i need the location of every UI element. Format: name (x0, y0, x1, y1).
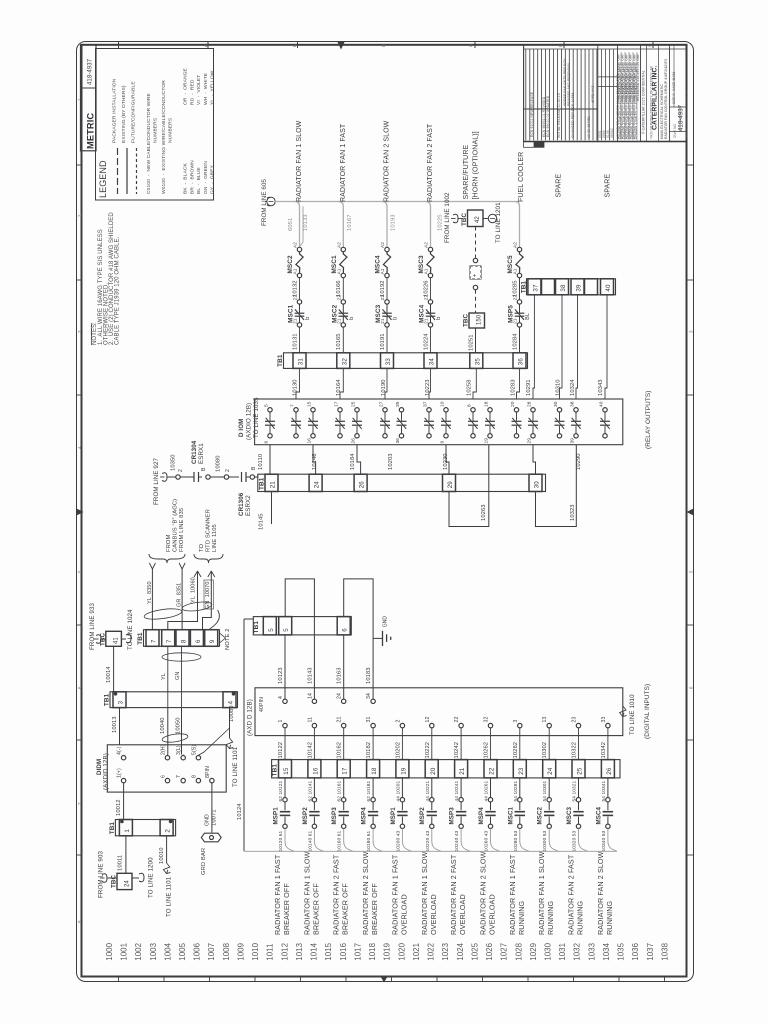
svg-text:A2: A2 (513, 242, 519, 248)
svg-text:40: 40 (599, 401, 605, 407)
svg-text:10302: 10302 (542, 742, 548, 759)
svg-text:26: 26 (359, 481, 366, 489)
svg-text:29: 29 (447, 481, 454, 489)
svg-text:1002: 1002 (134, 943, 143, 961)
svg-text:SCALE NONE SHEET 10 OF 14: SCALE NONE SHEET 10 OF 14 (684, 91, 688, 138)
svg-text:1: 1 (124, 829, 131, 833)
svg-text:10140 61: 10140 61 (307, 830, 313, 851)
svg-text:1036: 1036 (631, 942, 640, 960)
svg-text:7: 7 (151, 639, 158, 643)
svg-text:62 10181: 62 10181 (366, 780, 372, 801)
svg-text:14: 14 (307, 693, 313, 699)
svg-text:1037: 1037 (646, 943, 655, 961)
svg-text:BREAKER OFF: BREAKER OFF (282, 883, 291, 935)
svg-text:10225: 10225 (438, 214, 444, 231)
svg-text:10260 43: 10260 43 (484, 830, 490, 851)
svg-text:OVERLOAD: OVERLOAD (488, 894, 497, 935)
svg-text:10290: 10290 (576, 453, 582, 470)
svg-text:6: 6 (161, 775, 167, 778)
svg-text:10240 43: 10240 43 (454, 830, 460, 851)
svg-text:MSC2: MSC2 (287, 255, 294, 274)
svg-text:RADIATOR FAN 2 SLOW: RADIATOR FAN 2 SLOW (479, 851, 488, 935)
svg-text:23: 23 (572, 717, 578, 723)
svg-text:TO LINE 1035: TO LINE 1035 (253, 397, 260, 438)
svg-text:B: B (201, 467, 207, 471)
svg-text:10343: 10343 (598, 379, 604, 396)
svg-text:10263: 10263 (481, 504, 487, 521)
svg-text:1029: 1029 (529, 942, 538, 960)
svg-text:30: 30 (553, 401, 559, 407)
svg-text:MSC4: MSC4 (419, 304, 426, 323)
svg-text:RADIATOR FAN 2 FAST: RADIATOR FAN 2 FAST (449, 854, 458, 935)
svg-text:10220 43: 10220 43 (425, 830, 431, 851)
svg-text:1020: 1020 (397, 942, 406, 960)
svg-text:NOTE 2: NOTE 2 (225, 628, 231, 650)
svg-text:MSP2: MSP2 (419, 807, 426, 825)
svg-text:10322: 10322 (572, 742, 578, 759)
svg-text:10280 53: 10280 53 (513, 830, 519, 851)
svg-text:MSC1: MSC1 (331, 255, 338, 274)
svg-text:10132: 10132 (292, 280, 298, 297)
svg-text:37: 37 (532, 284, 539, 292)
svg-text:RADIATOR FAN 1 FAST: RADIATOR FAN 1 FAST (508, 854, 517, 935)
svg-text:TB1: TB1 (277, 354, 284, 367)
svg-text:10163: 10163 (337, 667, 343, 684)
svg-text:OVERLOAD: OVERLOAD (458, 894, 467, 935)
svg-text:54 10321: 54 10321 (572, 780, 578, 801)
svg-text:RADIATOR FAN 2 SLOW: RADIATOR FAN 2 SLOW (384, 120, 391, 202)
svg-text:MSC3: MSC3 (375, 304, 382, 323)
svg-text:TO LINE 1200: TO LINE 1200 (148, 857, 155, 898)
svg-text:RADIATOR FAN 1 FAST: RADIATOR FAN 1 FAST (340, 123, 347, 202)
svg-text:THIS DRAWING PROPERTY OF CATER: THIS DRAWING PROPERTY OF CATERPILLAR (650, 65, 654, 139)
svg-text:54 10341: 54 10341 (601, 780, 607, 801)
svg-text:FROM LINE 835: FROM LINE 835 (179, 508, 185, 552)
svg-text:10283: 10283 (510, 379, 516, 396)
svg-text:10014: 10014 (106, 666, 112, 683)
svg-text:SPARE: SPARE (605, 174, 612, 198)
svg-text:1021: 1021 (412, 943, 421, 961)
svg-text:10182: 10182 (366, 742, 372, 759)
svg-text:TBC: TBC (111, 875, 118, 888)
svg-text:40: 40 (605, 284, 612, 292)
svg-text:BREAKER OFF: BREAKER OFF (311, 883, 320, 935)
svg-text:MSP2: MSP2 (302, 807, 309, 825)
svg-text:TB1: TB1 (272, 764, 279, 777)
svg-text:7: 7 (176, 775, 182, 778)
svg-text:8: 8 (77, 920, 82, 923)
svg-text:BR - BROWN: BR - BROWN (189, 160, 195, 194)
svg-text:22: 22 (454, 717, 460, 723)
svg-text:CANBUS “B” (AGC): CANBUS “B” (AGC) (173, 499, 179, 552)
svg-text:MSP5: MSP5 (508, 305, 515, 323)
svg-text:7: 7 (166, 639, 173, 643)
svg-text:W0100 - EXISTING WIRE/CABLE/: W0100 - EXISTING WIRE/CABLE/CONDUCTOR (161, 80, 167, 194)
svg-text:44 10201: 44 10201 (395, 780, 401, 801)
svg-text:40PIN: 40PIN (259, 697, 265, 712)
svg-text:YL 8350: YL 8350 (147, 581, 153, 604)
svg-text:34: 34 (429, 358, 436, 366)
svg-text:1005: 1005 (178, 942, 187, 960)
svg-text:YL 10060: YL 10060 (191, 577, 197, 603)
svg-text:RADIATOR FAN 1 FAST: RADIATOR FAN 1 FAST (273, 854, 282, 935)
svg-text:FUEL COOLER: FUEL COOLER (518, 152, 525, 202)
svg-text:62 10121: 62 10121 (278, 780, 284, 801)
svg-text:1011: 1011 (266, 943, 275, 960)
svg-text:CHANGED PER ECN 10456: CHANGED PER ECN 10456 (571, 93, 575, 138)
svg-text:BREAKER OFF: BREAKER OFF (370, 883, 379, 935)
svg-text:10258: 10258 (467, 379, 473, 396)
svg-text:CR1306: CR1306 (238, 492, 245, 516)
svg-text:3: 3 (513, 720, 519, 723)
svg-text:1017: 1017 (353, 943, 362, 961)
svg-text:TB1: TB1 (109, 822, 116, 835)
svg-text:10122: 10122 (278, 742, 284, 759)
svg-text:METRIC: METRIC (86, 113, 96, 149)
svg-text:b: b (349, 317, 355, 320)
svg-text:19: 19 (484, 438, 490, 444)
svg-text:MSP3: MSP3 (449, 807, 456, 825)
svg-text:3: 3 (118, 700, 125, 704)
svg-text:32: 32 (484, 717, 490, 723)
svg-text:31: 31 (366, 717, 372, 723)
svg-text:21: 21 (337, 717, 343, 723)
svg-text:10300 53: 10300 53 (542, 830, 548, 851)
svg-text:GRD BAR: GRD BAR (201, 848, 207, 875)
svg-text:RUNNING: RUNNING (546, 900, 555, 935)
svg-text:OVERLOAD: OVERLOAD (399, 894, 408, 935)
svg-text:1018: 1018 (368, 942, 377, 960)
svg-text:5: 5 (268, 628, 275, 632)
svg-text:RADIATOR FAN 1 SLOW: RADIATOR FAN 1 SLOW (420, 851, 429, 935)
svg-text:10050: 10050 (176, 717, 182, 734)
svg-text:A2: A2 (336, 242, 342, 248)
svg-text:10183: 10183 (366, 667, 372, 684)
svg-text:GR 8351: GR 8351 (177, 583, 183, 607)
svg-text:5: 5 (688, 570, 693, 573)
svg-text:1016: 1016 (339, 942, 348, 960)
svg-text:23: 23 (518, 767, 525, 775)
svg-text:10192: 10192 (380, 280, 386, 297)
svg-text:5: 5 (264, 404, 270, 407)
svg-text:10226: 10226 (423, 280, 429, 297)
svg-text:5: 5 (283, 628, 290, 632)
svg-text:10123: 10123 (278, 667, 284, 684)
svg-text:RADIATOR FAN CONTROL GROUP 416: RADIATOR FAN CONTROL GROUP 416F2/420F2 (664, 59, 668, 139)
svg-text:10143: 10143 (307, 667, 313, 684)
svg-text:10080: 10080 (229, 705, 235, 722)
svg-text:10133: 10133 (303, 214, 309, 231)
svg-text:10160 61: 10160 61 (337, 830, 343, 851)
svg-text:22: 22 (380, 295, 386, 301)
svg-text:1034: 1034 (602, 942, 611, 960)
svg-text:MSP1: MSP1 (390, 807, 397, 825)
svg-text:RADIATOR FAN 2 FAST: RADIATOR FAN 2 FAST (332, 854, 341, 935)
svg-text:10012: 10012 (116, 799, 122, 816)
svg-text:2: 2 (225, 469, 231, 472)
svg-text:MSC3: MSC3 (418, 255, 425, 274)
svg-text:150: 150 (476, 314, 482, 325)
svg-text:10191: 10191 (380, 333, 386, 350)
svg-text:MSC1: MSC1 (288, 304, 295, 323)
svg-text:10251: 10251 (468, 334, 474, 351)
svg-text:E: E (292, 44, 297, 47)
svg-text:FROM LINE 933: FROM LINE 933 (89, 603, 96, 650)
svg-text:A2: A2 (380, 242, 386, 248)
svg-text:10162: 10162 (337, 742, 343, 759)
svg-text:6: 6 (342, 628, 349, 632)
svg-text:ECN 99010-02 UPDATED: ECN 99010-02 UPDATED (546, 95, 550, 137)
svg-text:(AXDID 12B): (AXDID 12B) (103, 753, 110, 790)
svg-text:(AXDIO 12B): (AXDIO 12B) (246, 403, 253, 440)
svg-text:16: 16 (307, 438, 313, 444)
svg-text:INITIAL RELEASE 10-30-15: INITIAL RELEASE 10-30-15 (557, 93, 561, 138)
svg-text:9: 9 (209, 639, 216, 643)
svg-text:10202: 10202 (395, 742, 401, 759)
svg-text:26: 26 (351, 438, 357, 444)
svg-text:1024: 1024 (456, 942, 465, 960)
svg-text:1033: 1033 (587, 942, 596, 960)
svg-text:10011: 10011 (118, 855, 124, 871)
svg-text:26: 26 (606, 767, 613, 775)
svg-text:NUMBERS: NUMBERS (168, 117, 174, 143)
svg-text:1015: 1015 (324, 942, 333, 960)
svg-text:+: + (473, 274, 477, 280)
svg-text:10131: 10131 (292, 333, 298, 350)
svg-text:(AXD D 12B): (AXD D 12B) (247, 699, 254, 736)
svg-text:10262: 10262 (484, 742, 490, 759)
svg-text:OVERLOAD: OVERLOAD (429, 894, 438, 935)
svg-text:22: 22 (293, 295, 299, 301)
svg-text:6051: 6051 (288, 218, 294, 231)
svg-text:1025: 1025 (470, 942, 479, 960)
svg-text:18: 18 (484, 401, 490, 407)
svg-text:BREAKER OFF: BREAKER OFF (341, 883, 350, 935)
svg-text:1030: 1030 (544, 942, 553, 960)
svg-text:10167: 10167 (347, 214, 353, 231)
svg-text:LINE 1105: LINE 1105 (212, 524, 218, 552)
svg-text:6: 6 (264, 441, 270, 444)
svg-text:10224: 10224 (423, 333, 429, 350)
svg-text:RADIATOR FAN 1 SLOW: RADIATOR FAN 1 SLOW (302, 851, 311, 935)
svg-text:b: b (305, 317, 311, 320)
svg-text:1022: 1022 (427, 943, 436, 961)
svg-text:25: 25 (351, 401, 357, 407)
svg-text:RADIATOR FAN 1 FAST: RADIATOR FAN 1 FAST (390, 854, 399, 935)
svg-text:37: 37 (423, 401, 429, 407)
svg-text:10145: 10145 (259, 513, 265, 530)
svg-text:10-30-15 REL: 10-30-15 REL (587, 116, 591, 138)
svg-text:© CATERPILLAR 2015 CONFIDENTIA: © CATERPILLAR 2015 CONFIDENTIAL (642, 70, 646, 134)
svg-text:TB1: TB1 (104, 693, 111, 706)
svg-text:62 10161: 62 10161 (337, 780, 343, 801)
svg-text:1: 1 (278, 720, 284, 723)
svg-text:A2: A2 (293, 242, 299, 248)
svg-text:22: 22 (424, 295, 430, 301)
svg-text:10291: 10291 (526, 379, 532, 396)
svg-text:10071: 10071 (212, 809, 218, 826)
svg-text:10342: 10342 (601, 742, 607, 759)
svg-text:10285: 10285 (513, 280, 519, 297)
svg-text:10040: 10040 (160, 717, 166, 734)
svg-text:TB1: TB1 (137, 632, 144, 645)
svg-text:FROM LINE 927: FROM LINE 927 (153, 458, 160, 505)
svg-text:33: 33 (601, 717, 607, 723)
svg-text:RUNNING: RUNNING (605, 900, 614, 935)
svg-text:22: 22 (336, 295, 342, 301)
svg-text:RELEASED 418-4937-00 GRP: RELEASED 418-4937-00 GRP (636, 53, 640, 101)
svg-text:24: 24 (337, 693, 343, 699)
svg-text:BL - BLUE: BL - BLUE (196, 167, 202, 194)
svg-text:4: 4 (77, 446, 82, 449)
svg-text:F: F (204, 44, 209, 47)
svg-text:7: 7 (77, 802, 82, 805)
svg-text:WH - WHITE: WH - WHITE (203, 72, 209, 105)
svg-text:CR1304: CR1304 (191, 440, 198, 464)
svg-text:FROM LINE 1002: FROM LINE 1002 (444, 192, 451, 243)
svg-text:1012: 1012 (280, 943, 289, 961)
svg-text:NUMBERS: NUMBERS (153, 117, 159, 143)
svg-text:10: 10 (440, 401, 446, 407)
svg-text:MSC2: MSC2 (537, 806, 544, 824)
svg-text:3: 3 (77, 330, 82, 333)
svg-text:10284: 10284 (513, 333, 519, 350)
svg-text:18: 18 (371, 767, 378, 775)
svg-text:418-4937: 418-4937 (88, 58, 94, 85)
svg-text:10203: 10203 (388, 453, 394, 470)
svg-text:10164: 10164 (336, 379, 342, 396)
svg-text:2: 2 (77, 214, 82, 217)
svg-text:10180 61: 10180 61 (366, 830, 372, 851)
svg-text:FROM: FROM (166, 534, 172, 552)
svg-text:10200 43: 10200 43 (395, 830, 401, 851)
svg-text:10310: 10310 (556, 379, 562, 396)
svg-text:MSP1: MSP1 (273, 807, 280, 825)
svg-text:B: B (251, 466, 257, 470)
svg-text:24: 24 (314, 481, 321, 489)
svg-text:MSC2: MSC2 (331, 304, 338, 323)
svg-text:(DIGITAL INPUTS): (DIGITAL INPUTS) (644, 684, 651, 739)
svg-text:TBC: TBC (100, 633, 107, 646)
svg-text:RADIATOR FAN 2 FAST: RADIATOR FAN 2 FAST (427, 123, 434, 202)
svg-text:10324: 10324 (570, 379, 576, 396)
svg-text:TO LINE 1010: TO LINE 1010 (629, 694, 636, 735)
svg-text:RUNNING: RUNNING (576, 900, 585, 935)
svg-text:10110: 10110 (258, 454, 264, 470)
svg-text:28: 28 (527, 401, 533, 407)
svg-text:1(+): 1(+) (117, 768, 123, 778)
svg-text:GND: GND (205, 814, 211, 826)
svg-text:GN: GN (175, 672, 181, 680)
svg-text:MSC4: MSC4 (595, 806, 602, 824)
svg-text:21: 21 (270, 481, 277, 489)
svg-text:7: 7 (290, 404, 296, 407)
svg-text:39: 39 (570, 438, 576, 444)
svg-text:19: 19 (400, 767, 407, 775)
svg-text:BL: BL (525, 313, 531, 320)
svg-text:TB1: TB1 (259, 477, 266, 490)
svg-text:8: 8 (467, 404, 473, 407)
svg-text:TO LINE 1101: TO LINE 1101 (166, 876, 173, 917)
svg-text:10320 53: 10320 53 (572, 830, 578, 851)
svg-text:RADIATOR FAN 2 FAST: RADIATOR FAN 2 FAST (567, 854, 576, 935)
svg-text:35: 35 (474, 358, 481, 366)
svg-text:9: 9 (440, 441, 446, 444)
svg-text:10282: 10282 (513, 742, 519, 759)
svg-text:1: 1 (77, 98, 82, 101)
svg-text:32: 32 (341, 358, 348, 366)
svg-text:10323: 10323 (570, 504, 576, 521)
svg-text:15: 15 (283, 767, 290, 775)
svg-text:8PIN: 8PIN (205, 766, 211, 778)
svg-text:APPD XYZ: APPD XYZ (591, 85, 595, 103)
svg-text:10350: 10350 (171, 454, 177, 471)
svg-text:31: 31 (298, 358, 305, 366)
svg-text:TBC: TBC (462, 314, 469, 327)
svg-text:54 10281: 54 10281 (513, 780, 519, 801)
svg-text:24: 24 (125, 880, 131, 887)
svg-text:GND: GND (383, 616, 389, 628)
svg-text:44 10241: 44 10241 (454, 780, 460, 801)
svg-text:8: 8 (181, 639, 188, 643)
svg-text:1013: 1013 (295, 942, 304, 960)
svg-text:1008: 1008 (222, 942, 231, 960)
svg-text:10080: 10080 (216, 455, 222, 472)
svg-text:D IOM: D IOM (238, 419, 245, 437)
svg-text:RADIATOR FAN 2 SLOW: RADIATOR FAN 2 SLOW (361, 851, 370, 935)
svg-text:96552: 96552 (610, 128, 614, 138)
svg-text:10165: 10165 (336, 333, 342, 350)
svg-text:20: 20 (510, 401, 516, 407)
svg-text:1006: 1006 (193, 942, 202, 960)
svg-text:41: 41 (114, 637, 120, 644)
svg-text:17: 17 (334, 401, 340, 407)
svg-text:RADIATOR FAN 2 SLOW: RADIATOR FAN 2 SLOW (596, 851, 605, 935)
svg-text:1032: 1032 (573, 943, 582, 961)
svg-text:1023: 1023 (441, 942, 450, 960)
svg-text:MSC3: MSC3 (566, 806, 573, 824)
svg-text:2: 2 (165, 829, 172, 833)
svg-text:22: 22 (513, 295, 519, 301)
svg-text:25: 25 (577, 767, 584, 775)
svg-text:ESRX2: ESRX2 (245, 495, 252, 516)
svg-text:C0100 - NEW CABLE/CONDUCTOR: C0100 - NEW CABLE/CONDUCTOR WIRE (146, 92, 152, 194)
svg-text:1004: 1004 (163, 942, 172, 960)
svg-text:39: 39 (576, 284, 583, 292)
svg-text:35: 35 (395, 401, 401, 407)
svg-text:1000: 1000 (105, 942, 114, 960)
svg-text:PACKAGER INSTALLATION: PACKAGER INSTALLATION (112, 78, 118, 143)
svg-text:RADIATOR FAN 1 SLOW: RADIATOR FAN 1 SLOW (537, 851, 546, 935)
svg-text:36: 36 (518, 358, 525, 366)
svg-text:1010: 1010 (251, 942, 260, 960)
svg-text:MSC1: MSC1 (507, 806, 514, 824)
svg-text:2(H): 2(H) (161, 744, 167, 755)
svg-text:MSP3: MSP3 (331, 807, 338, 825)
svg-text:1019: 1019 (383, 942, 392, 960)
svg-text:10190: 10190 (381, 379, 387, 396)
svg-text:34: 34 (366, 693, 372, 699)
svg-text:1031: 1031 (558, 943, 567, 961)
svg-text:SPARE/FUTURE: SPARE/FUTURE (463, 145, 470, 200)
svg-text:YL: YL (161, 673, 167, 680)
svg-text:10142: 10142 (307, 742, 313, 759)
svg-text:RUNNING: RUNNING (517, 900, 526, 935)
svg-text:TO LINE 1024: TO LINE 1024 (127, 609, 134, 650)
svg-text:15: 15 (307, 401, 313, 407)
svg-text:54 10301: 54 10301 (542, 780, 548, 801)
svg-text:27: 27 (379, 401, 385, 407)
